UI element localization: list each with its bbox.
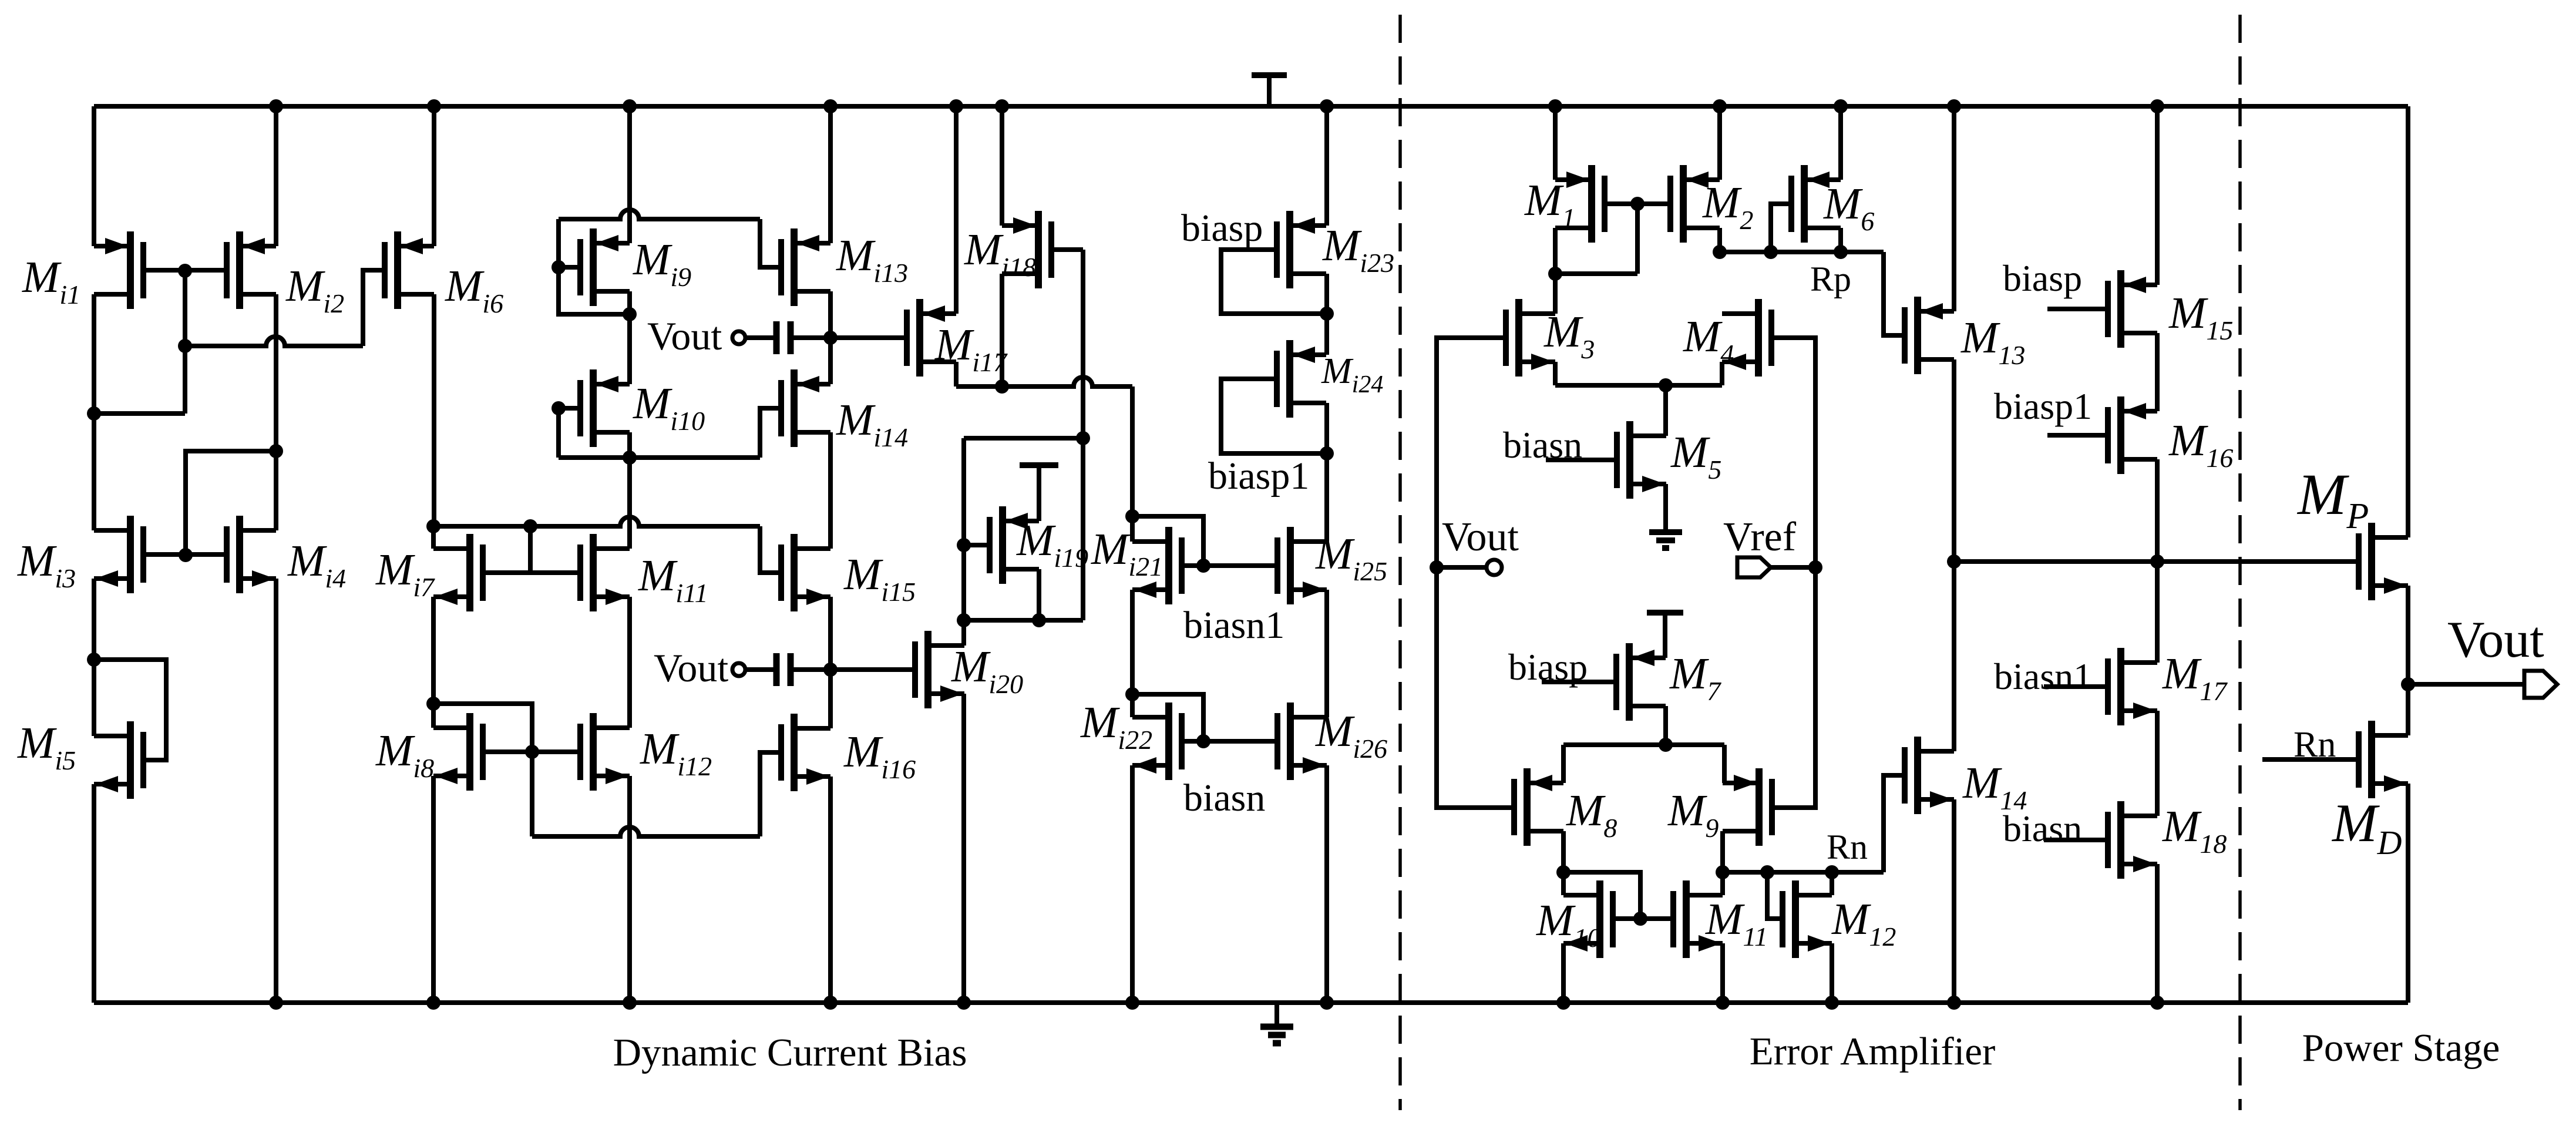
wire Vref port stub — [1770, 565, 1815, 570]
wire M1 source to VDD — [1553, 106, 1558, 180]
wire Mi18 drain corner — [1000, 274, 1004, 386]
wire MD gate lead — [2262, 757, 2359, 762]
node Mi6 drain - Mi7 drain — [426, 519, 440, 533]
node Vref node — [1808, 560, 1822, 574]
node capacitor node 2 — [823, 663, 838, 677]
wire M5 drain corner — [1663, 385, 1668, 436]
wire Mi13 gate drop — [760, 219, 781, 267]
node VDD Mi2 — [269, 99, 283, 113]
node biasp node — [1320, 307, 1334, 321]
wire Mi9 drain to Mi10 source — [627, 314, 632, 384]
wire M4 source corner — [1720, 362, 1724, 385]
wire M11 drain corner — [1720, 872, 1725, 895]
wire M14 drain up — [1952, 562, 1956, 751]
wire Mi4 gate lead — [186, 552, 227, 557]
wire Mi8 gate net — [433, 704, 532, 752]
transistor Mi7 — [433, 534, 483, 611]
wire gate drive to MP — [1954, 559, 2359, 564]
transistor Mi19 — [990, 506, 1039, 584]
svg-text:Dynamic Current Bias: Dynamic Current Bias — [613, 1031, 967, 1074]
node Mi10 drain — [623, 451, 637, 465]
wire M8 drain corner — [1561, 831, 1566, 872]
node capacitor node 1 — [823, 331, 838, 345]
svg-text:biasp1: biasp1 — [1208, 455, 1309, 498]
node M1-M2 gate tie — [1630, 197, 1645, 211]
wire M17 gate lead — [2044, 684, 2108, 689]
node VDD Mi13 — [823, 99, 838, 113]
wire Mi22 gate lead to Mi26 gate lead — [1182, 739, 1277, 744]
wire Mi19 drain corner — [1037, 569, 1041, 620]
wire M16 gate lead — [2047, 433, 2108, 438]
wire M10 gate lead to M11 gate lead — [1613, 916, 1673, 921]
wire M8 source corner — [1561, 745, 1566, 783]
wire M15 source to VDD — [2155, 106, 2160, 285]
transistor Mi12 — [580, 713, 630, 791]
node VDD M15 — [2150, 99, 2164, 113]
transistor M14 — [1905, 737, 1954, 814]
node Mi19 loop top — [1076, 431, 1090, 445]
node Mi22-Mi26 gate tie — [1196, 734, 1210, 748]
node ground Mi26 — [1320, 996, 1334, 1010]
wire Mi21 drain corner — [1130, 516, 1135, 542]
node Mi21 drain — [1125, 509, 1139, 523]
node M12 drain — [1825, 865, 1839, 879]
transistor M2 — [1670, 165, 1720, 243]
wire M8 gate lead — [1437, 805, 1514, 810]
wire Mi22 diode loop — [1132, 694, 1203, 741]
transistor M13 — [1905, 297, 1954, 374]
node M7 drain — [1659, 738, 1673, 752]
transistor Mi2 — [227, 231, 276, 309]
wire Vout port stub — [1437, 565, 1487, 570]
node Mi19 loop bottom-left — [957, 613, 971, 627]
transistor M3 — [1506, 299, 1555, 377]
wire biasp1 node to Mi25 drain — [1324, 453, 1329, 542]
transistor M12 — [1783, 880, 1832, 958]
transistor Mi20 — [915, 631, 964, 708]
wire Mi6 gate net with hop over Mi2 drain — [185, 337, 363, 346]
wire M6 source to VDD — [1838, 106, 1843, 180]
svg-text:biasn1: biasn1 — [1183, 604, 1284, 647]
node M1 drain — [1548, 267, 1562, 281]
svg-text:biasn: biasn — [2003, 808, 2082, 849]
wire Mi9-Mi13 gate net with hop — [559, 210, 760, 219]
transistor M8 — [1514, 768, 1563, 846]
node M6 drain — [1834, 245, 1848, 259]
wire M1 drain corner — [1553, 228, 1558, 274]
wire M7 drain corner — [1663, 706, 1668, 745]
wire Mi9 gate lead — [559, 265, 580, 270]
node Mi19 drain — [1032, 613, 1046, 627]
wire Mi6 gate vertical — [363, 270, 385, 346]
wire Mi24 drain corner — [1324, 403, 1329, 453]
node Vout input node — [1430, 560, 1444, 574]
wire Mi7 drain corner — [431, 526, 436, 549]
wire Mi8 source to ground — [431, 776, 436, 1003]
wire M6 drain corner — [1838, 228, 1843, 252]
wire Mi10 diode loop — [556, 408, 561, 458]
ground rail — [94, 1000, 2408, 1005]
wire M2 source to VDD — [1717, 106, 1722, 180]
transistor Mi15 — [781, 534, 830, 611]
svg-text:biasp: biasp — [2003, 257, 2082, 299]
wire Rp to M13 gate — [1884, 252, 1905, 335]
wire M2 drain corner — [1717, 228, 1722, 252]
wire Mi19 loop top horizontal — [964, 436, 1083, 441]
node Mi5 gate branch — [87, 653, 101, 667]
node Mi2 drain / Mi4 drain — [269, 444, 283, 458]
transistor Mi4 — [227, 516, 276, 593]
wire Mi10 drain corner — [627, 432, 632, 458]
wire Mi22 drain corner — [1130, 694, 1135, 717]
wire M14 source to ground — [1952, 799, 1956, 1003]
wire Rp net horizontal — [1720, 250, 1884, 254]
wire MD source to ground — [2406, 784, 2410, 1003]
transistor Mi18 — [1002, 211, 1051, 288]
node M8 drain - M10 mirror node — [1556, 865, 1571, 879]
wire M4 gate to Vref net — [1771, 338, 1815, 808]
wire diff pair tail horizontal — [1555, 383, 1722, 388]
wire M17 source to M18 drain — [2155, 711, 2160, 816]
wire M15 drain to M16 source — [2155, 333, 2160, 411]
svg-text:biasn: biasn — [1183, 777, 1265, 819]
wire Mi3 gate lead — [143, 552, 186, 557]
node VDD Mi6 — [427, 99, 441, 113]
node Vout power — [2401, 677, 2415, 691]
wire Mi17 drain corner — [954, 362, 959, 386]
wire M3 gate to Vout net — [1437, 338, 1514, 808]
wire M13 source to VDD — [1952, 106, 1956, 311]
node Mi3-Mi4 gate tie — [179, 548, 193, 562]
wire Mi8 drain corner — [431, 704, 436, 728]
svg-text:Vout: Vout — [647, 314, 722, 358]
wire Mi14 drain to Mi15 drain — [828, 432, 833, 549]
wire M11 source to ground — [1720, 943, 1725, 1003]
wire Mi25 source to Mi26 drain — [1324, 590, 1329, 717]
node M9 drain Rn node — [1716, 865, 1730, 879]
wire M5 source to ground symbol — [1663, 484, 1668, 530]
wire second stage source rail — [1563, 742, 1724, 747]
node Mi7-Mi11 gate branch — [523, 519, 537, 533]
node VDD M13 — [1947, 99, 1961, 113]
transistor Mi1 — [94, 231, 143, 309]
transistor M4 — [1722, 299, 1771, 377]
wire Rn to M14 gate — [1884, 775, 1905, 872]
VDD symbol above M7 — [1647, 610, 1683, 616]
wire Mi14 gate drop — [760, 408, 781, 458]
node ground M14 — [1947, 996, 1961, 1010]
transistor Mi8 — [433, 713, 483, 791]
wire M9 gate lead — [1772, 805, 1815, 810]
wire Mi1 gate lead — [143, 268, 185, 273]
transistor M15 — [2108, 270, 2157, 348]
wire Mi6 drain node horizontal with hop — [433, 517, 760, 526]
wire Mi20 drain corner — [961, 620, 966, 646]
port flag Vout output — [2524, 671, 2557, 698]
wire Mi13 source to VDD — [828, 106, 833, 243]
wire Mi1 drain down left column — [92, 294, 96, 414]
wire Mi18 gate vertical — [1081, 250, 1085, 438]
transistor Mi14 — [781, 369, 830, 447]
node Mi8 drain — [426, 697, 440, 711]
transistor M9 — [1723, 768, 1772, 846]
wire M9 source corner — [1722, 745, 1727, 783]
svg-text:biasp1: biasp1 — [1994, 385, 2092, 427]
node M10-M11 gate tie — [1633, 912, 1647, 926]
wire Mi21 source down — [1130, 590, 1135, 694]
wire Mi2 source to VDD — [274, 106, 278, 246]
wire Mi4 drain up — [274, 451, 278, 530]
node drive node right — [2150, 554, 2164, 569]
wire Rn net horizontal — [1723, 870, 1884, 875]
node VDD Mi23 — [1320, 99, 1334, 113]
wire M10 source to ground — [1561, 943, 1566, 1003]
wire net drop to Mi21 drain — [1130, 386, 1135, 516]
wire M13 drain down — [1952, 359, 1956, 562]
wire Mi1 source to VDD — [92, 106, 96, 246]
wire Mi23 gate loop — [1221, 250, 1327, 314]
wire M16 drain down — [2155, 459, 2160, 562]
wire Mi13 drain corner — [828, 291, 833, 338]
svg-text:biasp: biasp — [1181, 207, 1263, 250]
wire Mi10 gate lead — [559, 406, 580, 411]
node VDD M6 — [1834, 99, 1848, 113]
node ground Mi20 — [957, 996, 971, 1010]
node ground M12 — [1825, 996, 1839, 1010]
wire Mi20 source to ground — [961, 694, 966, 1003]
transistor Mi5 — [94, 721, 143, 799]
svg-text:biasn1: biasn1 — [1994, 656, 2092, 697]
wire Mi15 source down — [828, 597, 833, 670]
wire Mi6 source to VDD — [432, 106, 436, 246]
wire Mi8 gate lead to Mi12 gate lead — [483, 749, 580, 754]
node VDD Mi18 — [995, 99, 1009, 113]
svg-text:Rn: Rn — [1827, 828, 1868, 866]
VDD supply symbol — [1252, 72, 1287, 78]
ground symbol M5 — [1649, 529, 1682, 535]
VDD rail — [94, 104, 2408, 109]
node VDD Mi9 — [623, 99, 637, 113]
capacitor C2 — [745, 667, 776, 672]
node Mi8-Mi12 gate tie — [525, 745, 539, 759]
port circle Vout 1 — [732, 331, 745, 344]
node VDD Mi17 — [949, 99, 963, 113]
svg-text:Vref: Vref — [1723, 515, 1797, 560]
transistor M5 — [1617, 421, 1666, 499]
wire Mi9 drain corner — [627, 291, 632, 314]
wire Mi14 source up — [828, 338, 833, 384]
wire Mi2 drain down — [274, 294, 278, 451]
wire Mi9 diode loop down — [559, 267, 630, 314]
transistor Mi13 — [781, 228, 830, 306]
wire Mi3/Mi4 gate net — [186, 451, 276, 555]
transistor Mi3 — [94, 516, 143, 593]
wire Mi6 drain long vertical — [432, 294, 436, 526]
node ground Mi4 — [269, 996, 283, 1010]
port circle Vout EA — [1487, 560, 1502, 575]
wire Mi5 source to ground rail — [92, 784, 96, 1003]
wire Mi22 source to ground — [1130, 765, 1135, 1003]
node M2 drain Rp — [1713, 245, 1727, 259]
node Mi22 drain — [1125, 687, 1139, 701]
transistor M7 — [1616, 643, 1666, 721]
wire M17 drain up — [2155, 562, 2160, 663]
svg-text:Power Stage: Power Stage — [2302, 1026, 2500, 1070]
node Mi21-Mi25 gate tie — [1196, 559, 1210, 573]
wire Mi7 source down — [431, 597, 436, 704]
wire Mi7-Mi11 gate riser — [528, 526, 533, 573]
wire Mi11 source to Mi12 drain — [627, 597, 632, 728]
wire VDD to MP drain — [2406, 106, 2410, 537]
wire Mi12 source to ground — [627, 776, 632, 1003]
node VDD M1 — [1548, 99, 1562, 113]
svg-text:Vout: Vout — [654, 646, 728, 690]
wire Mi23 source to VDD — [1324, 106, 1329, 226]
wire Mi9 gate riser — [556, 219, 561, 267]
node M6 gate branch — [1764, 245, 1778, 259]
wire Mi19 loop right vertical — [1081, 438, 1085, 620]
transistor Mi21 — [1132, 527, 1182, 604]
wire gate node vertical — [183, 271, 187, 414]
wire Mi24 source up — [1324, 314, 1329, 355]
transistor M6 — [1791, 165, 1841, 243]
svg-text:Rp: Rp — [1810, 260, 1851, 298]
node Mi9 gate — [551, 260, 566, 274]
transistor Mi26 — [1277, 703, 1327, 780]
node Mi1-Mi2 gate tie — [178, 264, 192, 278]
transistor Mi23 — [1277, 211, 1326, 288]
node Mi18 drain junction — [995, 379, 1009, 394]
wire Mi21 diode loop — [1132, 516, 1203, 566]
wire M7 gate lead — [1542, 680, 1616, 684]
wire Mi1/Mi2 gate node horizontal — [94, 411, 185, 416]
wire Mi19 loop left vertical — [961, 438, 966, 620]
transistor M11 — [1673, 880, 1723, 958]
wire M6 gate drop — [1771, 204, 1791, 252]
node M12 gate branch — [1760, 865, 1774, 879]
wire M18 gate lead — [2044, 838, 2108, 842]
transistor M16 — [2108, 396, 2157, 474]
transistor Mi9 — [580, 228, 630, 306]
svg-text:Error Amplifier: Error Amplifier — [1750, 1030, 1996, 1073]
capacitor C1 — [745, 335, 776, 340]
node Mi9 drain — [623, 307, 637, 321]
main ground symbol — [1274, 1003, 1279, 1024]
node ground Mi16 — [823, 996, 838, 1010]
wire Mi17 drain net with hop to Mi21 — [956, 377, 1132, 386]
wire M5 gate lead — [1546, 458, 1617, 462]
node ground M18 — [2150, 996, 2164, 1010]
wire M15 gate lead — [2047, 307, 2108, 311]
wire Mi21 gate lead to Mi25 gate lead — [1182, 563, 1277, 568]
wire Mi16 drain up — [828, 670, 833, 728]
wire M1 drain to gate loop — [1555, 271, 1637, 276]
wire Mi16 source to ground — [828, 777, 833, 1003]
wire M1 gate lead to M2 gate lead — [1605, 201, 1670, 206]
wire Mi20 gate lead — [830, 667, 915, 672]
node biasp1 node — [1320, 446, 1334, 461]
transistor M1 — [1555, 165, 1605, 243]
wire Mi15 gate drop — [760, 526, 781, 573]
wire Mi18 source to VDD — [1000, 106, 1004, 226]
node tail — [1659, 378, 1673, 392]
wire Mi16 gate net with hop — [532, 827, 760, 836]
transistor Mi24 — [1277, 340, 1326, 418]
wire M18 source to ground — [2155, 864, 2160, 1003]
node ground Mi8 — [426, 996, 440, 1010]
node ground Mi12 — [623, 996, 637, 1010]
transistor M10 — [1563, 880, 1613, 958]
node drive node left — [1947, 554, 1961, 569]
wire Mi16 gate drop — [760, 752, 781, 836]
wire Mi4 source to ground rail — [274, 579, 278, 1003]
port flag Vref — [1737, 557, 1771, 577]
section divider dashed line 2 — [2238, 15, 2242, 1110]
transistor Mi11 — [580, 534, 630, 611]
wire M3 source corner — [1553, 362, 1558, 385]
transistor Mi16 — [781, 714, 830, 791]
node Mi6 gate branch — [178, 339, 192, 353]
wire Mi7 gate lead to Mi11 gate lead — [483, 570, 580, 575]
svg-text:Vout: Vout — [2447, 611, 2544, 668]
node ground Mi22 — [1125, 996, 1139, 1010]
wire M9 drain corner — [1720, 831, 1725, 872]
wire M12 gate drop — [1767, 872, 1783, 919]
transistor M17 — [2108, 648, 2157, 725]
wire Mi5 gate loop — [94, 660, 166, 760]
wire Mi26 source to ground — [1324, 765, 1329, 1003]
node Mi1 drain junction — [87, 406, 101, 421]
wire MP source to Vout node — [2406, 586, 2410, 684]
transistor Mi17 — [907, 299, 956, 377]
wire Mi18 gate lead — [1051, 247, 1083, 252]
wire M10 diode loop — [1563, 872, 1640, 919]
transistor Mi10 — [580, 369, 630, 447]
wire Mi9 source to VDD — [627, 106, 632, 243]
wire M12 drain corner — [1830, 872, 1834, 895]
wire Mi10 drain to Mi11 drain — [627, 458, 632, 549]
wire Mi17 source to VDD — [954, 106, 959, 314]
transistor Mi22 — [1132, 703, 1182, 780]
transistor Mi6 — [385, 231, 434, 309]
wire Mi3 source down — [92, 579, 96, 660]
section divider dashed line 1 — [1398, 15, 1402, 1110]
node ground M10 — [1556, 996, 1571, 1010]
wire Mi10 drain to Mi14 gate net — [559, 455, 760, 460]
VDD symbol above Mi19 — [1020, 462, 1058, 468]
node ground M11 — [1716, 996, 1730, 1010]
wire M12 source to ground — [1830, 943, 1834, 1003]
node Mi19 gate — [957, 538, 971, 552]
wire Mi3 drain up — [92, 414, 96, 530]
wire MD drain up — [2406, 684, 2410, 735]
wire Mi17 gate lead — [830, 335, 907, 340]
wire Mi2 gate lead — [185, 268, 227, 273]
wire M10 drain corner — [1561, 872, 1566, 895]
wire Mi23 drain corner — [1324, 274, 1329, 314]
node VDD M2 — [1713, 99, 1727, 113]
port circle Vout 2 — [732, 663, 745, 676]
transistor M18 — [2108, 801, 2157, 879]
wire M1 diode vertical — [1635, 204, 1640, 274]
wire Mi19 loop bottom horizontal — [964, 618, 1083, 623]
transistor Mi25 — [1277, 527, 1327, 604]
wire Mi19 gate lead — [964, 543, 990, 547]
wire Mi24 gate loop — [1221, 379, 1327, 453]
wire M1 drain to M3 drain — [1553, 274, 1558, 314]
svg-text:Vout: Vout — [1442, 515, 1519, 560]
transistor MD — [2359, 721, 2408, 798]
